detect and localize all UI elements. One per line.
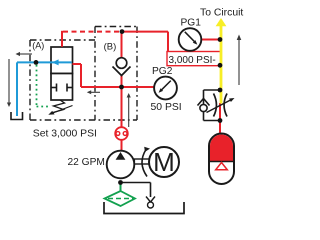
svg-text:To Circuit: To Circuit xyxy=(200,8,243,19)
svg-text:Set 3,000 PSI: Set 3,000 PSI xyxy=(33,129,97,140)
svg-text:PG2: PG2 xyxy=(152,66,173,77)
svg-text:3,000 PSI-: 3,000 PSI- xyxy=(169,55,216,66)
svg-text:PG1: PG1 xyxy=(181,17,202,28)
svg-text:50 PSI: 50 PSI xyxy=(151,102,182,113)
svg-text:(B): (B) xyxy=(104,41,117,52)
svg-text:22 GPM: 22 GPM xyxy=(68,157,105,168)
svg-text:(A): (A) xyxy=(32,41,44,51)
svg-text:M: M xyxy=(153,147,175,177)
